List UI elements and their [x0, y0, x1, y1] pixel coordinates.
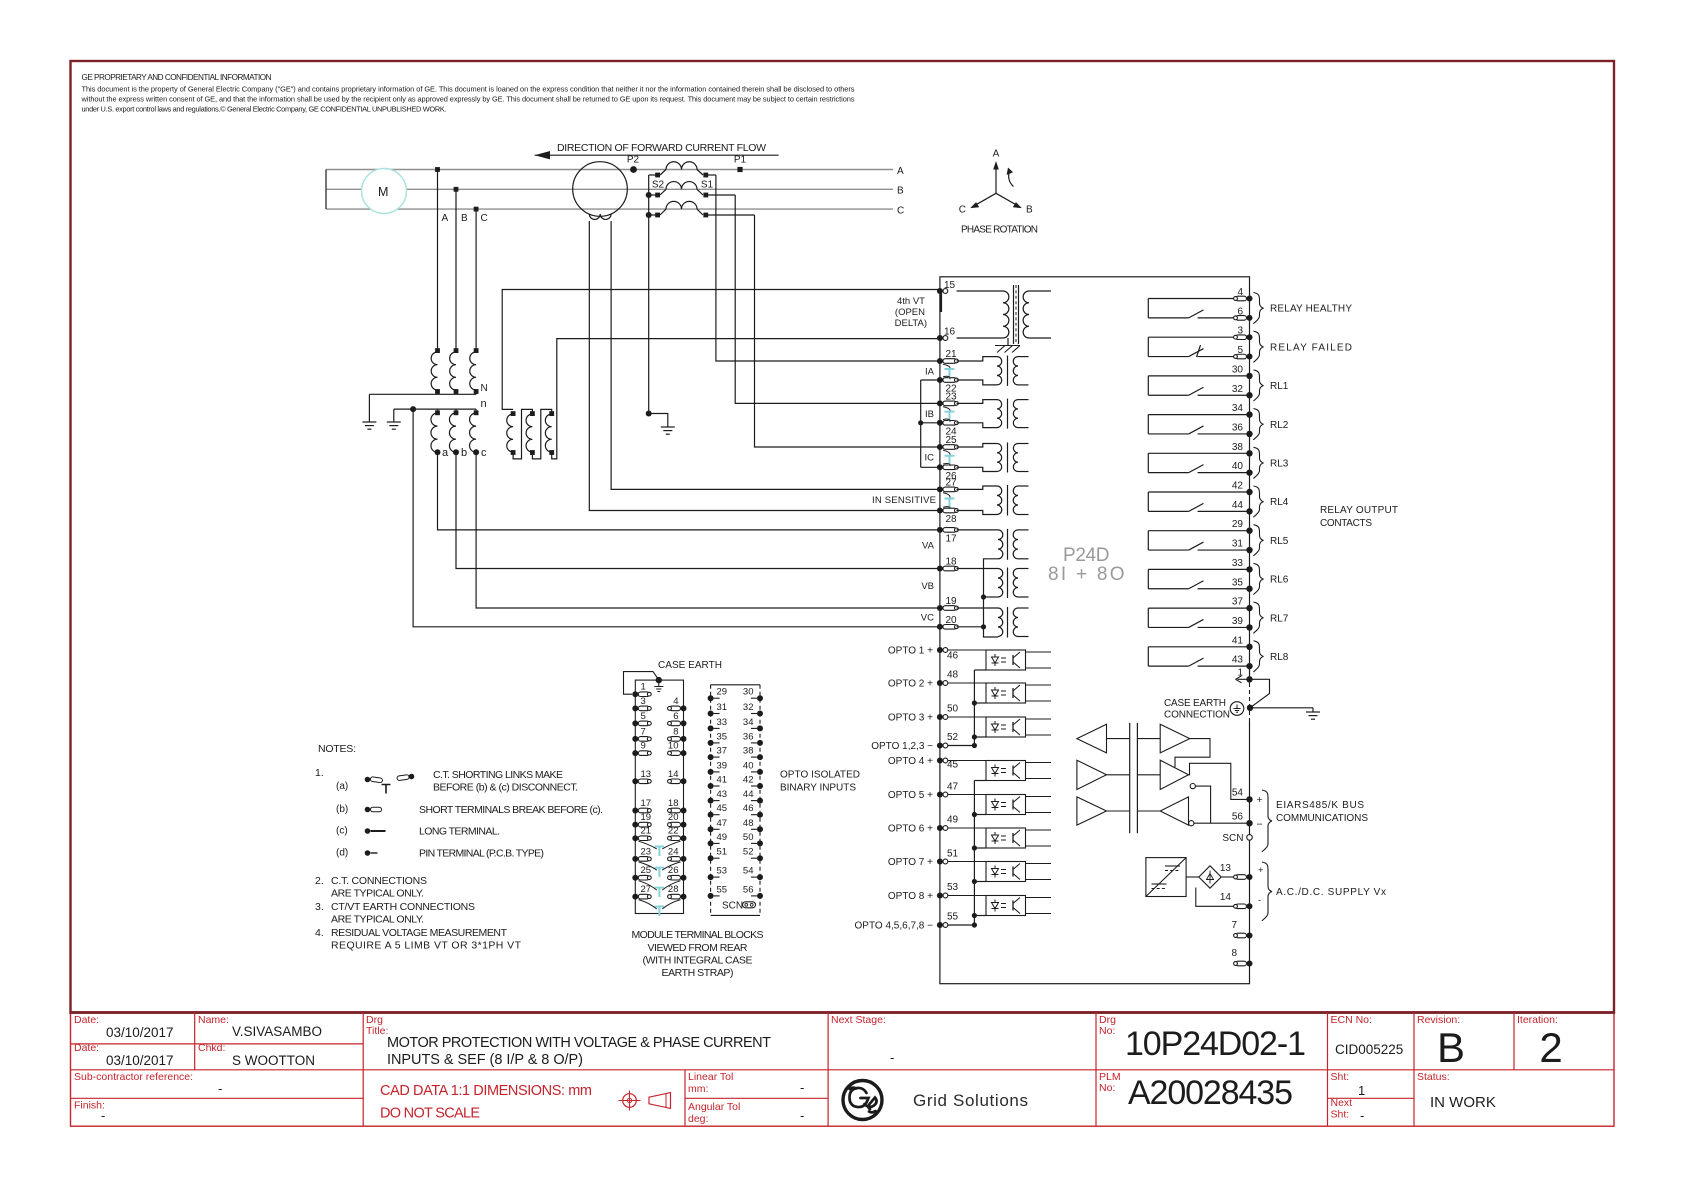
relay contact RL4 — [1148, 491, 1249, 493]
svg-text:without the express written co: without the express written consent of G… — [81, 95, 855, 104]
module pin 4 — [681, 705, 687, 711]
svg-text:21: 21 — [641, 826, 652, 837]
terminal 34 — [1246, 411, 1252, 417]
wire CT B S1 to terminal 23 — [735, 195, 940, 403]
svg-text:+: + — [1257, 794, 1263, 806]
transformer 4th VT input — [957, 290, 1004, 292]
svg-text:ARE TYPICAL ONLY.: ARE TYPICAL ONLY. — [331, 888, 424, 900]
svg-text:18: 18 — [668, 798, 679, 809]
wire bridge to terminal 13 — [1221, 876, 1235, 878]
svg-text:-: - — [1360, 1108, 1364, 1123]
terminal 13 — [1247, 874, 1253, 880]
VT T4 open delta winding 3 — [549, 411, 554, 416]
brace comms — [1262, 790, 1272, 852]
optocoupler U5 — [986, 795, 1026, 815]
svg-text:43: 43 — [717, 789, 728, 800]
module pin 51 — [708, 855, 714, 861]
svg-text:53: 53 — [717, 866, 728, 877]
module pin 50 — [757, 840, 763, 846]
svg-text:45: 45 — [947, 760, 959, 771]
module pin 9 — [632, 750, 638, 756]
open delta staircase links — [513, 409, 532, 459]
svg-text:03/10/2017: 03/10/2017 — [106, 1053, 174, 1068]
terminal 15 — [937, 288, 943, 294]
svg-text:DELTA): DELTA) — [895, 318, 927, 329]
svg-text:1: 1 — [1358, 1083, 1365, 1098]
module pin 40 — [757, 769, 763, 775]
svg-text:18: 18 — [946, 557, 958, 568]
svg-text:48: 48 — [743, 818, 754, 829]
svg-text:EARTH STRAP): EARTH STRAP) — [662, 967, 734, 979]
svg-text:Angular Tol: Angular Tol — [688, 1101, 740, 1113]
VT T4 open delta winding 2 — [530, 411, 535, 416]
relay contact RELAY FAILED — [1148, 336, 1249, 338]
svg-text:DO NOT SCALE: DO NOT SCALE — [380, 1106, 480, 1122]
svg-text:17: 17 — [946, 533, 958, 544]
svg-text:42: 42 — [743, 775, 754, 786]
module pin 8 — [681, 736, 687, 742]
wire rx link — [1175, 739, 1210, 768]
svg-text:6: 6 — [673, 711, 678, 722]
svg-text:RL5: RL5 — [1270, 536, 1289, 547]
svg-text:43: 43 — [1232, 655, 1244, 666]
title block outline — [71, 1013, 1615, 1127]
svg-text:Status:: Status: — [1417, 1071, 1450, 1083]
svg-text:56: 56 — [1232, 812, 1244, 823]
svg-text:No:: No: — [1099, 1025, 1115, 1037]
core balance CT T2 — [573, 162, 628, 217]
terminal 24 — [937, 420, 943, 426]
svg-text:20: 20 — [668, 812, 679, 823]
module pin 48 — [757, 826, 763, 832]
svg-text:4th VT: 4th VT — [897, 296, 925, 307]
module pin 3 — [632, 705, 638, 711]
inverter bubble U5 — [1190, 784, 1195, 789]
transformer input IA — [957, 357, 998, 361]
node P2 — [630, 166, 637, 173]
wire opto bus 1-3 — [973, 670, 975, 746]
svg-text:M: M — [378, 185, 388, 199]
svg-text:mm:: mm: — [688, 1083, 708, 1095]
transformer input IN — [957, 486, 998, 489]
svg-text:20: 20 — [946, 615, 958, 626]
svg-text:30: 30 — [743, 687, 754, 698]
CT shorting link 21-22 — [945, 369, 955, 379]
wire to terminal 56 — [1194, 822, 1250, 824]
module pin 1 — [632, 691, 638, 697]
svg-text:OPTO 5 +: OPTO 5 + — [888, 790, 933, 801]
terminal 26 — [937, 464, 943, 470]
terminal 43 — [1246, 663, 1252, 669]
terminal 53 — [937, 893, 943, 899]
svg-text:OPTO 4 +: OPTO 4 + — [888, 756, 933, 767]
module pin 33 — [708, 725, 714, 731]
module terminal block 1 outline — [635, 680, 683, 913]
wire VT a to terminal 17 — [438, 452, 940, 530]
svg-text:This document is the property: This document is the property of General… — [82, 85, 855, 94]
terminal 28 — [937, 508, 943, 514]
svg-text:OPTO 6 +: OPTO 6 + — [888, 824, 933, 835]
terminal 16 — [937, 335, 943, 341]
CT shorting link 23-24 — [945, 412, 955, 422]
svg-text:S WOOTTON: S WOOTTON — [232, 1053, 315, 1068]
brace RL7 — [1254, 602, 1264, 633]
terminal 7 — [1247, 933, 1253, 939]
svg-text:RL3: RL3 — [1270, 458, 1289, 469]
svg-text:SCN: SCN — [722, 901, 743, 912]
terminal 18 — [937, 566, 943, 572]
terminal 30 — [1246, 373, 1252, 379]
terminal 45 — [937, 758, 943, 764]
CT T1 phase B winding — [666, 182, 697, 190]
node P1 — [737, 167, 742, 172]
terminal 42 — [1246, 489, 1252, 495]
svg-text:MODULE TERMINAL BLOCKS: MODULE TERMINAL BLOCKS — [632, 929, 764, 941]
power supply unit — [1146, 858, 1186, 897]
case earth terminal — [656, 677, 662, 683]
buffer U3 rx right — [1160, 724, 1190, 753]
svg-text:30: 30 — [1232, 364, 1244, 375]
module pin 23 — [632, 856, 638, 862]
brace supply — [1262, 862, 1272, 921]
svg-text:OPTO ISOLATED: OPTO ISOLATED — [780, 770, 860, 781]
optocoupler U1 — [986, 650, 1026, 670]
svg-text:34: 34 — [743, 717, 754, 728]
terminal 1 — [1246, 676, 1252, 682]
svg-text:RL1: RL1 — [1270, 381, 1289, 392]
case earth node — [1247, 705, 1253, 711]
svg-text:OPTO 3 +: OPTO 3 + — [888, 713, 933, 724]
svg-text:No:: No: — [1099, 1082, 1115, 1094]
module pin 21 — [632, 835, 638, 841]
svg-text:-: - — [800, 1108, 804, 1123]
svg-text:P1: P1 — [734, 155, 747, 166]
svg-text:CID005225: CID005225 — [1335, 1042, 1403, 1057]
wire VT b to terminal 18 — [456, 452, 940, 568]
svg-text:OPTO 8 +: OPTO 8 + — [888, 891, 933, 902]
svg-text:(b): (b) — [336, 804, 348, 815]
svg-text:23: 23 — [641, 846, 652, 857]
CT T1 phase C winding — [666, 201, 697, 209]
svg-text:-: - — [890, 1050, 894, 1065]
terminal 22 — [937, 377, 943, 383]
module pin 55 — [708, 893, 714, 899]
module shorting link 23-24 — [655, 868, 665, 878]
svg-text:5: 5 — [1237, 345, 1243, 356]
svg-text:4: 4 — [673, 696, 678, 707]
module pin 53 — [708, 874, 714, 880]
transformer input VC — [957, 607, 999, 609]
svg-text:48: 48 — [947, 670, 959, 681]
svg-text:IB: IB — [925, 409, 934, 420]
svg-text:41: 41 — [1232, 635, 1244, 646]
svg-text:55: 55 — [717, 884, 728, 895]
CT shorting link 25-26 — [945, 456, 955, 466]
svg-text:OPTO 7 +: OPTO 7 + — [888, 857, 933, 868]
terminal 46 — [937, 647, 943, 653]
svg-text:V.SIVASAMBO: V.SIVASAMBO — [232, 1024, 322, 1039]
wire VT input common — [984, 559, 999, 637]
svg-text:LONG TERMINAL.: LONG TERMINAL. — [419, 826, 500, 838]
svg-text:IC: IC — [925, 453, 935, 464]
svg-text:7: 7 — [641, 726, 646, 737]
svg-text:RL6: RL6 — [1270, 575, 1289, 586]
svg-text:c: c — [481, 447, 487, 459]
bridge rectifier — [1199, 866, 1221, 888]
svg-text:22: 22 — [668, 826, 679, 837]
svg-text:A: A — [897, 166, 904, 177]
svg-text:32: 32 — [743, 702, 754, 713]
module pin 49 — [708, 840, 714, 846]
terminal 52 — [937, 743, 943, 749]
terminal 3 — [1247, 334, 1253, 340]
terminal 4 — [1247, 296, 1253, 302]
svg-text:27: 27 — [946, 477, 958, 488]
module pin 32 — [757, 711, 763, 717]
module pin 14 — [681, 778, 687, 784]
svg-text:19: 19 — [641, 812, 652, 823]
wire core balance CT to terminal 28 — [589, 221, 940, 511]
VT T3 primary B — [454, 348, 459, 353]
svg-text:Sht:: Sht: — [1331, 1071, 1350, 1083]
svg-text:-: - — [800, 1080, 804, 1095]
svg-text:A: A — [993, 149, 1000, 160]
module pin 26 — [681, 875, 687, 881]
terminal 25 — [937, 444, 943, 450]
wire stub below 15 — [939, 294, 942, 313]
svg-text:51: 51 — [947, 849, 959, 860]
wire CT A S1 to terminal 21 — [716, 175, 940, 361]
relay contact RL7 — [1148, 607, 1249, 609]
relay case dashed earth segment — [1248, 683, 1250, 722]
VT T4 open delta winding 1 — [511, 411, 516, 416]
wire tx to terminal 54 — [1189, 763, 1250, 799]
svg-text:under U.S. export control laws: under U.S. export control laws and regul… — [82, 105, 447, 114]
svg-text:1: 1 — [641, 682, 646, 693]
svg-text:46: 46 — [743, 803, 754, 814]
direction arrow line — [535, 154, 779, 156]
terminal 39 — [1246, 624, 1252, 630]
svg-text:47: 47 — [947, 782, 959, 793]
svg-text:10P24D02-1: 10P24D02-1 — [1125, 1025, 1306, 1063]
svg-text:5: 5 — [641, 711, 646, 722]
module pin 41 — [708, 783, 714, 789]
svg-text:B: B — [897, 186, 904, 197]
svg-text:8I + 8O: 8I + 8O — [1048, 564, 1126, 585]
svg-text:b: b — [461, 447, 467, 459]
svg-text:Next: Next — [1331, 1097, 1353, 1109]
svg-text:OPTO 4,5,6,7,8 −: OPTO 4,5,6,7,8 − — [855, 921, 934, 932]
svg-text:SHORT TERMINALS BREAK BEFORE (: SHORT TERMINALS BREAK BEFORE (c). — [419, 804, 603, 816]
svg-text:2: 2 — [1539, 1024, 1562, 1071]
svg-text:Sub-contractor reference:: Sub-contractor reference: — [74, 1071, 193, 1083]
svg-text:EIARS485/K BUS: EIARS485/K BUS — [1276, 800, 1364, 811]
svg-text:35: 35 — [1232, 577, 1244, 588]
svg-text:C.T. CONNECTIONS: C.T. CONNECTIONS — [331, 875, 427, 887]
svg-text:38: 38 — [743, 746, 754, 757]
svg-text:17: 17 — [641, 798, 652, 809]
note 1a symbol — [365, 777, 371, 783]
svg-text:Grid Solutions: Grid Solutions — [913, 1091, 1028, 1110]
svg-text:S1: S1 — [701, 180, 714, 191]
case earth strap — [624, 672, 659, 695]
wire VT n to terminal 20 — [413, 409, 940, 627]
wire opto bus 4-8 — [973, 781, 975, 926]
svg-text:41: 41 — [717, 775, 728, 786]
optocoupler U4 — [986, 761, 1026, 781]
terminal 44 — [1246, 508, 1252, 514]
brace RL1 — [1254, 370, 1264, 401]
terminal 19 — [937, 605, 943, 611]
module pin 6 — [681, 720, 687, 726]
svg-text:a: a — [442, 447, 449, 459]
module pin 43 — [708, 798, 714, 804]
svg-text:50: 50 — [947, 704, 959, 715]
terminal 40 — [1246, 469, 1252, 475]
terminal 35 — [1246, 586, 1252, 592]
svg-text:REQUIRE A 5 LIMB VT OR 3: REQUIRE A 5 LIMB VT OR 3*1PH VT — [331, 940, 522, 952]
terminal 41 — [1246, 644, 1252, 650]
svg-text:C: C — [897, 206, 904, 217]
optocoupler U3 — [986, 717, 1026, 737]
module pin 35 — [708, 740, 714, 746]
CT earth connection — [649, 414, 668, 428]
drawing border frame — [71, 61, 1615, 1013]
svg-text:RL2: RL2 — [1270, 420, 1289, 431]
transformer input IB — [957, 400, 998, 404]
svg-text:36: 36 — [1232, 422, 1244, 433]
wire case earth to ground — [1250, 707, 1313, 709]
svg-text:44: 44 — [1232, 500, 1244, 511]
svg-text:C: C — [959, 205, 966, 216]
terminal 56 — [1246, 820, 1252, 826]
brace RELAY FAILED — [1254, 331, 1264, 362]
svg-text:54: 54 — [743, 866, 754, 877]
svg-text:34: 34 — [1232, 403, 1244, 414]
svg-text:13: 13 — [1220, 863, 1232, 874]
svg-text:VB: VB — [921, 581, 934, 592]
module pin 28 — [681, 894, 687, 900]
svg-text:(a): (a) — [336, 781, 348, 792]
svg-text:55: 55 — [947, 912, 959, 923]
module shorting link 25-26 — [655, 888, 665, 898]
svg-text:(OPEN: (OPEN — [895, 307, 925, 318]
transformer input IC — [957, 444, 998, 448]
optocoupler U6 — [986, 828, 1026, 848]
module pin 29 — [708, 695, 714, 701]
wire star jumper 22-24-26 — [920, 380, 922, 467]
terminal 54 — [1246, 796, 1252, 802]
terminal 32 — [1246, 392, 1252, 398]
svg-text:C.T. SHORTING LINKS MAKE: C.T. SHORTING LINKS MAKE — [433, 769, 563, 781]
module pin 20 — [681, 822, 687, 828]
svg-text:OPTO 1 +: OPTO 1 + — [888, 646, 933, 657]
brace RL6 — [1254, 563, 1264, 594]
relay contact RL6 — [1148, 568, 1249, 570]
svg-text:COMMUNICATIONS: COMMUNICATIONS — [1276, 813, 1368, 824]
svg-text:(c): (c) — [336, 826, 348, 837]
terminal 20 — [937, 624, 943, 630]
svg-text:CONNECTION: CONNECTION — [1164, 710, 1230, 721]
module shorting link 27-28 — [655, 907, 665, 917]
svg-text:DIRECTION OF FORWARD CURREN: DIRECTION OF FORWARD CURRENT FLOW — [557, 142, 766, 154]
VT T3 primary A — [435, 348, 440, 353]
svg-text:Sht:: Sht: — [1331, 1109, 1350, 1121]
svg-text:31: 31 — [1232, 539, 1244, 550]
svg-text:CASE EARTH: CASE EARTH — [658, 660, 722, 671]
svg-text:RESIDUAL VOLTAGE MEASUREMENT: RESIDUAL VOLTAGE MEASUREMENT — [331, 927, 508, 939]
svg-text:OPTO 2 +: OPTO 2 + — [888, 679, 933, 690]
module pin 45 — [708, 812, 714, 818]
svg-text:3: 3 — [1237, 326, 1243, 337]
svg-text:29: 29 — [1232, 519, 1244, 530]
svg-text:36: 36 — [743, 731, 754, 742]
svg-text:C: C — [481, 213, 488, 224]
module terminal block 2 outline — [711, 684, 760, 686]
svg-text:IN SENSITIVE: IN SENSITIVE — [872, 495, 936, 506]
svg-text:S2: S2 — [652, 180, 665, 191]
VT T3 secondary b — [454, 410, 459, 415]
svg-text:VA: VA — [922, 541, 935, 552]
svg-text:6: 6 — [1237, 306, 1243, 317]
svg-text:40: 40 — [1232, 461, 1244, 472]
wire bridge to terminal 14 — [1196, 888, 1235, 907]
terminal 47 — [937, 792, 943, 798]
svg-text:Title:: Title: — [366, 1025, 388, 1037]
module pin 13 — [632, 778, 638, 784]
svg-text:14: 14 — [668, 769, 679, 780]
phase rotation arms — [995, 165, 997, 193]
svg-text:PIN TERMINAL (P.C.B. TYPE): PIN TERMINAL (P.C.B. TYPE) — [419, 848, 544, 860]
svg-text:(d): (d) — [336, 848, 348, 859]
svg-text:B: B — [1437, 1024, 1465, 1071]
module pin 56 — [757, 893, 763, 899]
svg-text:25: 25 — [946, 435, 958, 446]
svg-text:26: 26 — [668, 865, 679, 876]
brace RELAY HEALTHY — [1254, 293, 1264, 324]
wire VT c to terminal 19 — [476, 452, 940, 608]
svg-text:VC: VC — [921, 613, 934, 624]
svg-text:49: 49 — [947, 815, 959, 826]
terminal SCN — [1247, 835, 1253, 841]
terminal 29 — [1246, 528, 1252, 534]
svg-text:23: 23 — [946, 391, 958, 402]
svg-text:Date:: Date: — [74, 1042, 99, 1054]
tap phase C — [474, 207, 479, 212]
svg-text:52: 52 — [947, 732, 959, 743]
svg-text:B: B — [461, 213, 468, 224]
svg-text:33: 33 — [1232, 558, 1244, 569]
module shorting link 21-22 — [655, 847, 665, 857]
relay case P24D outline — [940, 277, 1250, 984]
isolation barrier — [1129, 723, 1131, 833]
svg-text:Linear Tol: Linear Tol — [688, 1071, 733, 1083]
svg-text:−: − — [1257, 819, 1263, 831]
svg-text:27: 27 — [641, 884, 652, 895]
relay contact RL2 — [1148, 414, 1249, 416]
svg-text:NOTES:: NOTES: — [318, 743, 356, 755]
svg-text:IN WORK: IN WORK — [1430, 1094, 1496, 1111]
VT secondary earth — [393, 409, 395, 422]
svg-text:N: N — [481, 383, 488, 394]
svg-text:BEFORE (b) & (c) DISCONNECT.: BEFORE (b) & (c) DISCONNECT. — [433, 782, 578, 794]
relay contact RL1 — [1148, 375, 1249, 377]
svg-text:A.C./D.C. SUPPLY Vx: A.C./D.C. SUPPLY Vx — [1276, 887, 1386, 898]
svg-text:RL7: RL7 — [1270, 613, 1289, 624]
svg-text:45: 45 — [717, 803, 728, 814]
svg-text:3.: 3. — [315, 901, 324, 913]
node n bus — [394, 408, 476, 410]
